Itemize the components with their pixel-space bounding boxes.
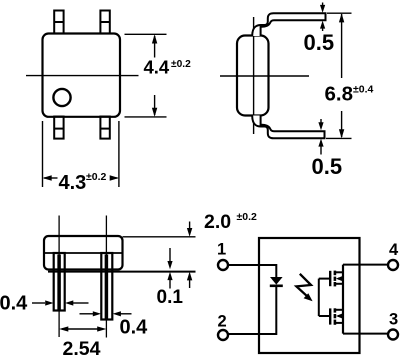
svg-text:2: 2 <box>218 313 227 331</box>
coupler package outline box <box>259 238 360 353</box>
dimension 0.5 (bottom lead) arrows <box>318 119 323 155</box>
gull-wing lead (bottom, side view) <box>252 116 324 139</box>
dimension 0.4 (left lead) arrows <box>32 300 89 305</box>
pin 3 terminal <box>388 330 398 340</box>
MOSFET Q1 (upper) <box>319 271 343 287</box>
svg-text:1: 1 <box>217 241 226 259</box>
dimension 0.4 (right lead) arrows <box>80 311 132 316</box>
wire LED cathode to pin2 <box>228 287 276 334</box>
centerline horizontal (side view) <box>220 75 309 77</box>
svg-text:2.54: 2.54 <box>63 338 101 358</box>
package body (top view) <box>43 34 121 117</box>
package body (side view) <box>237 36 269 116</box>
lead pin 2 (top-right, top view) <box>100 11 109 34</box>
svg-text:4.4: 4.4 <box>144 57 170 78</box>
svg-text:0.1: 0.1 <box>157 287 184 308</box>
svg-text:3: 3 <box>389 311 398 329</box>
lead pin 3 (bottom-left, top view) <box>54 117 63 139</box>
dimension text 2.0 ±0.2 <box>204 211 257 233</box>
lead centerline left <box>58 216 60 338</box>
light arrow (optical coupling) <box>296 274 312 302</box>
svg-text:6.8: 6.8 <box>325 83 354 106</box>
svg-text:±0.2: ±0.2 <box>237 211 258 223</box>
lead pin 4 (bottom-right, top view) <box>100 117 109 139</box>
dimension 4.3 extension lines <box>43 121 119 187</box>
LED D1 (input) <box>270 277 283 286</box>
lead centerline right <box>105 216 107 338</box>
lead pin 1 (top-left, top view) <box>54 11 63 34</box>
centerline (horizontal) <box>26 75 139 77</box>
svg-text:0.5: 0.5 <box>312 154 343 179</box>
dimension 6.8 extension lines <box>326 13 352 138</box>
svg-text:4: 4 <box>389 241 399 259</box>
pin 1 terminal <box>218 260 228 270</box>
dimension 6.8 dimension line with arrows <box>339 13 344 138</box>
pin 2 terminal <box>218 330 228 340</box>
svg-text:±0.2: ±0.2 <box>171 59 191 70</box>
dimension 2.54 dimension line with arrows <box>59 326 106 331</box>
gate bus wire <box>318 279 320 316</box>
dimension text 4.4 ±0.2 <box>144 57 192 78</box>
pin-1 index circle <box>53 89 70 106</box>
gull-wing lead (top, side view) <box>252 13 325 36</box>
svg-text:0.4: 0.4 <box>0 293 28 315</box>
body parting line <box>44 252 123 254</box>
dimension 0.5 (top lead) arrows <box>320 3 325 32</box>
centerline vertical (side view) <box>253 17 255 134</box>
svg-text:4.3: 4.3 <box>59 172 87 194</box>
lead left (front view) <box>54 253 65 311</box>
package body (front view) <box>44 236 123 270</box>
body top extension line <box>123 236 196 238</box>
MOSFET Q2 (lower) <box>319 308 343 325</box>
lead right (front view) <box>101 253 112 320</box>
source/drain bus wire <box>342 265 344 334</box>
dimension 4.4 dimension line with arrows <box>152 34 157 117</box>
dimension 4.3 dimension line with arrows <box>43 175 119 180</box>
svg-text:2.0: 2.0 <box>204 211 231 233</box>
dimension 4.4 extension lines <box>125 34 167 117</box>
seating plane line <box>48 271 196 273</box>
dimension text 4.3 ±0.2 <box>59 171 107 194</box>
pin 4 terminal <box>388 260 398 270</box>
svg-text:±0.2: ±0.2 <box>86 171 107 183</box>
dimension text 6.8 ±0.4 <box>325 83 374 106</box>
svg-text:±0.4: ±0.4 <box>353 84 374 96</box>
dimension 2.0 arrows <box>187 222 192 289</box>
svg-text:0.5: 0.5 <box>304 30 335 55</box>
wire drain Q2 to pin 3 <box>343 333 388 335</box>
wire drain Q1 to pin 4 <box>343 264 388 266</box>
dimension 0.1 arrows <box>167 248 172 289</box>
svg-text:0.4: 0.4 <box>120 317 149 339</box>
wire pin1 to LED anode <box>228 265 276 277</box>
